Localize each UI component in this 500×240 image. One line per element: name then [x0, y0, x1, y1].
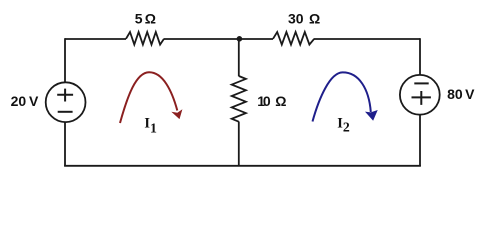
svg-text:5: 5: [135, 11, 143, 27]
V2 minus sign: [414, 82, 428, 84]
wire right rail upper: [419, 38, 421, 75]
resistor R3 10 ohm: [232, 76, 246, 122]
svg-text:30: 30: [288, 11, 304, 27]
V1 plus sign: [57, 89, 73, 102]
wire left rail upper: [64, 38, 66, 82]
wire top-middle segment: [164, 38, 239, 40]
wire left rail lower: [64, 122, 66, 166]
mesh current arrow I1 head: [173, 110, 182, 118]
V1 minus sign: [58, 111, 73, 113]
wire middle rail lower: [238, 122, 240, 167]
wire bottom: [64, 165, 421, 167]
wire top-left segment: [65, 38, 126, 40]
mesh current arrow I1 arc: [120, 72, 177, 123]
svg-text:V: V: [29, 93, 39, 109]
node A junction dot: [237, 36, 243, 42]
svg-text:80: 80: [447, 86, 463, 102]
wire top-right segment: [314, 38, 420, 40]
svg-text:Ω: Ω: [275, 93, 286, 109]
resistor R1 5 ohm: [126, 32, 164, 45]
svg-text:V: V: [465, 86, 475, 102]
svg-text:I1: I1: [144, 116, 157, 136]
wire middle rail upper: [238, 39, 240, 76]
voltage source V1 20V circle: [46, 82, 86, 122]
svg-text:I2: I2: [337, 116, 350, 135]
svg-text:Ω: Ω: [145, 11, 156, 27]
voltage source V2 80V circle: [400, 75, 440, 115]
V2 plus sign: [412, 91, 431, 105]
wire right rail lower: [419, 115, 421, 166]
wire top middle-right segment: [239, 38, 273, 40]
resistor R2 30 ohm: [273, 32, 314, 45]
svg-text:20: 20: [11, 93, 27, 109]
mesh current arrow I2 arc: [313, 72, 371, 121]
svg-text:Ω: Ω: [309, 11, 320, 27]
mesh current arrow I2 head: [366, 111, 377, 120]
svg-text:0: 0: [263, 93, 271, 109]
